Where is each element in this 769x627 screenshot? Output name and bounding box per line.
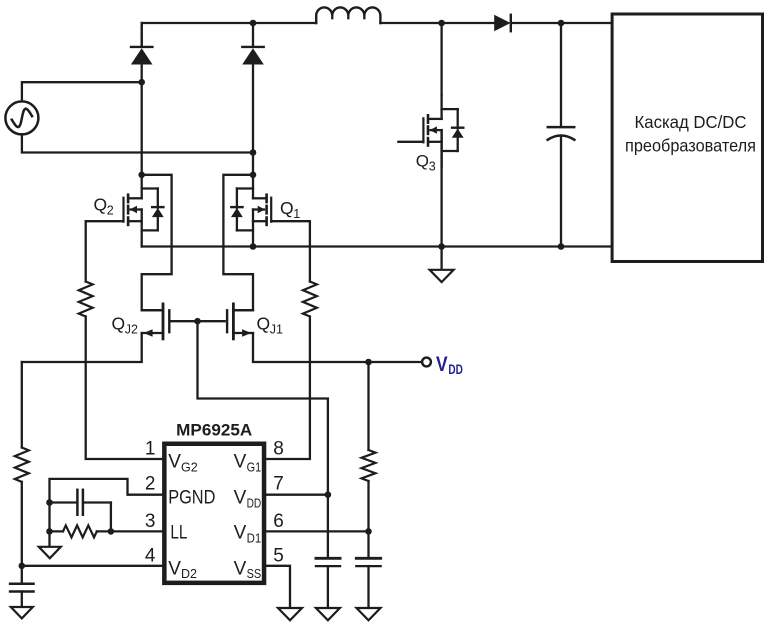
ground RC [39, 547, 61, 559]
svg-text:DD: DD [448, 362, 463, 377]
wire VDD node down [367, 362, 369, 450]
ground C1 [11, 607, 33, 618]
junction D1 cathode on rail [250, 20, 257, 27]
wire Q1 drain to QJ1 drain [223, 175, 253, 310]
transistor QJ1 [227, 304, 253, 339]
svg-text:3: 3 [145, 511, 156, 532]
resistor R1 [79, 282, 93, 317]
svg-text:7: 7 [273, 473, 284, 494]
AC source V1 [5, 101, 38, 134]
wire pin 5 to ground [266, 566, 290, 608]
op-amp U1 MP6925A box [164, 421, 264, 583]
junction VD1 node [365, 528, 372, 535]
wire top rail middle [380, 22, 494, 24]
label pin V_DD [234, 488, 262, 511]
label pin PGND [168, 488, 215, 509]
resistor R5 [362, 450, 376, 481]
wire AC bottom to node B [22, 134, 253, 152]
svg-text:Каскад DC/DC: Каскад DC/DC [635, 112, 747, 132]
junction Q3 top [438, 20, 445, 27]
junction pin 7 node [325, 491, 332, 498]
wire Q1 gate to R2 [271, 221, 310, 281]
resistor R2 [303, 282, 317, 317]
svg-text:Q: Q [94, 195, 108, 215]
svg-text:J2: J2 [125, 323, 138, 337]
wire VD2 node to pin 4 [22, 565, 163, 567]
svg-text:SS: SS [247, 567, 262, 581]
svg-text:D1: D1 [247, 531, 262, 545]
wire pin 6 to VD1 node [266, 530, 369, 532]
capacitor C1 [10, 566, 33, 607]
capacitor C5 [548, 23, 575, 247]
svg-text:V: V [234, 523, 247, 544]
block DC/DC converter stage [612, 14, 762, 262]
label Q1 [280, 198, 300, 221]
wire R5 to VD1 node [367, 481, 369, 531]
wire R4 to pin 3 [97, 530, 163, 532]
svg-text:V: V [168, 558, 181, 579]
svg-text:V: V [234, 558, 247, 579]
inductor L1 [316, 7, 380, 23]
svg-text:4: 4 [145, 545, 156, 566]
wire top rail to Q3 drain [440, 23, 442, 95]
label Q2 [94, 195, 114, 218]
capacitor C4 [356, 531, 380, 608]
svg-text:Q: Q [112, 314, 126, 334]
label pin number 7 [273, 473, 284, 494]
svg-text:1: 1 [293, 207, 300, 221]
junction R4 right [108, 528, 115, 535]
terminal VDD [422, 353, 463, 377]
svg-text:D2: D2 [181, 567, 197, 581]
label pin LL [170, 523, 187, 544]
wire QJ1 source to VDD [253, 333, 422, 362]
wire R4 left lead [50, 530, 64, 532]
diode D1 [242, 23, 264, 65]
junction C5 bottom [558, 243, 565, 250]
label pin number 6 [273, 511, 284, 532]
svg-text:1: 1 [145, 438, 156, 459]
transistor QJ2 [142, 304, 170, 339]
wire D1 anode down to Q1 drain [252, 64, 254, 175]
wire pin 7 to VDD line [266, 494, 328, 496]
wire Q3 gate stub [398, 141, 423, 143]
svg-text:V: V [168, 452, 181, 473]
label pin number 3 [145, 511, 156, 532]
junction RC cap left [46, 499, 53, 506]
ground bus [430, 247, 454, 283]
wire Q2 drain to QJ2 drain [142, 175, 172, 310]
junction Q3 bottom [438, 243, 445, 250]
junction VD2 node [19, 563, 26, 570]
svg-text:Q: Q [257, 314, 271, 334]
junction Q1 drain node [250, 172, 257, 179]
wire R1 to pin 1 [86, 317, 163, 460]
svg-text:DD: DD [247, 496, 262, 510]
wire R2 to pin 8 [266, 317, 310, 460]
node B junction [250, 149, 257, 156]
label pin number 5 [273, 545, 284, 566]
wire left divider top [21, 362, 23, 448]
svg-text:PGND: PGND [168, 488, 215, 509]
junction VDD node [365, 359, 372, 366]
wire Q2 gate to R1 [86, 221, 124, 281]
label pin V_SS [234, 558, 262, 581]
svg-text:Q: Q [280, 198, 294, 218]
wire pin 2 to RC [50, 479, 163, 547]
svg-text:преобразователя: преобразователя [625, 136, 756, 156]
diode D3 [494, 15, 511, 31]
junction Q1 source on bus [250, 243, 257, 250]
junction C5 top [558, 20, 565, 27]
wire QJ2 gate to QJ1 gate [170, 320, 224, 322]
svg-text:G1: G1 [247, 460, 262, 474]
label pin V_D1 [234, 523, 262, 546]
svg-text:2: 2 [145, 473, 156, 494]
capacitor C2 [50, 490, 111, 532]
svg-text:G2: G2 [181, 460, 198, 474]
svg-text:5: 5 [273, 545, 284, 566]
label pin V_G2 [168, 452, 198, 475]
diode D2 [131, 23, 153, 65]
label QJ2 [112, 314, 139, 337]
label pin number 8 [273, 438, 284, 459]
wire Q3 source to bus [440, 130, 442, 246]
capacitor C3 [316, 558, 340, 608]
wire bottom bus [142, 245, 612, 247]
svg-text:6: 6 [273, 511, 284, 532]
node A junction [138, 79, 145, 86]
resistor R4 [63, 525, 97, 537]
wire R3 to VD2 node [21, 482, 23, 566]
label pin V_D2 [168, 558, 197, 581]
wire QJ gates to VDD pin [198, 321, 328, 557]
label pin number 2 [145, 473, 156, 494]
junction Q2 drain node [138, 172, 145, 179]
junction RC res left [46, 528, 53, 535]
transistor Q1 [231, 175, 271, 247]
svg-text:3: 3 [429, 160, 436, 174]
wire top rail left [142, 23, 317, 47]
svg-text:LL: LL [170, 523, 187, 544]
resistor R3 [15, 448, 29, 482]
svg-text:J1: J1 [270, 323, 283, 337]
svg-text:V: V [234, 488, 247, 509]
transistor Q2 [124, 175, 164, 247]
label pin number 4 [145, 545, 156, 566]
transistor Q3 [423, 95, 463, 167]
label Q3 [416, 152, 436, 174]
label QJ1 [257, 314, 284, 337]
label pin number 1 [145, 438, 156, 459]
svg-text:8: 8 [273, 438, 284, 459]
svg-text:V: V [436, 353, 448, 376]
svg-text:2: 2 [107, 204, 114, 218]
ground pin 5 [278, 608, 302, 620]
ground C4 [357, 608, 381, 620]
wire AC top to node A [22, 82, 142, 101]
svg-text:V: V [234, 452, 247, 473]
label pin V_G1 [234, 452, 262, 475]
svg-text:Q: Q [416, 152, 429, 171]
junction QJ gates [194, 318, 201, 325]
wire QJ2 source down [22, 333, 142, 362]
svg-text:MP6925A: MP6925A [176, 421, 252, 440]
wire top rail right [511, 22, 612, 24]
wire D2 anode down to Q2 drain [141, 64, 143, 175]
ground C3 [316, 608, 340, 620]
